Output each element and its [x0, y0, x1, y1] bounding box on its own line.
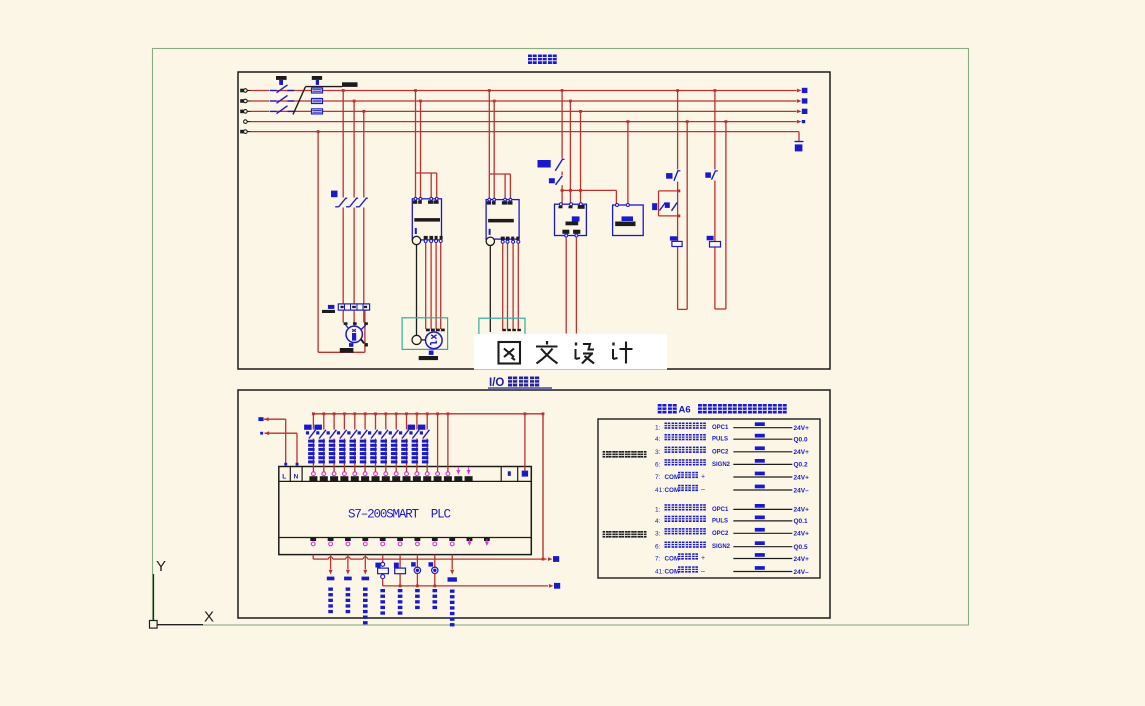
svg-text:PULS: PULS [712, 437, 728, 443]
svg-text:41:: 41: [655, 569, 664, 576]
svg-text:COM: COM [665, 487, 680, 494]
svg-text:N: N [294, 474, 299, 481]
svg-text:OPC2: OPC2 [712, 449, 729, 455]
svg-text:–: – [701, 487, 705, 494]
svg-text:7:: 7: [655, 474, 661, 481]
svg-text:24V+: 24V+ [794, 449, 810, 456]
svg-text:41:: 41: [655, 487, 664, 494]
svg-text:A6: A6 [679, 405, 691, 416]
svg-text:+: + [701, 474, 705, 481]
svg-text:3:: 3: [655, 530, 661, 537]
svg-text:Q0.0: Q0.0 [794, 437, 808, 444]
svg-text:6:: 6: [655, 461, 661, 468]
svg-text:24V–: 24V– [794, 487, 810, 494]
svg-text:1:: 1: [655, 506, 661, 513]
svg-text:+: + [701, 555, 705, 562]
svg-text:24V+: 24V+ [794, 474, 810, 481]
svg-text:SIGN2: SIGN2 [712, 544, 731, 550]
svg-text:I/O: I/O [489, 377, 504, 389]
svg-text:Q0.2: Q0.2 [794, 462, 808, 469]
svg-text:Q0.5: Q0.5 [794, 544, 808, 551]
svg-text:COM: COM [665, 569, 680, 576]
svg-text:COM: COM [665, 474, 680, 481]
svg-text:S7–200SMART PLC: S7–200SMART PLC [348, 508, 451, 522]
svg-text:6:: 6: [655, 544, 661, 551]
svg-text:3:: 3: [655, 449, 661, 456]
svg-text:COM: COM [665, 556, 680, 563]
svg-text:OPC2: OPC2 [712, 531, 729, 537]
svg-text:1:: 1: [655, 425, 661, 432]
svg-text:SIGN2: SIGN2 [712, 462, 731, 468]
svg-text:L: L [282, 474, 286, 481]
svg-text:24V+: 24V+ [794, 556, 810, 563]
svg-text:X: X [204, 609, 214, 626]
svg-text:4:: 4: [655, 518, 661, 525]
svg-text:OPC1: OPC1 [712, 425, 729, 431]
svg-text:–: – [701, 568, 705, 575]
svg-text:24V–: 24V– [794, 569, 810, 576]
svg-text:24V+: 24V+ [794, 507, 810, 514]
svg-text:4:: 4: [655, 436, 661, 443]
svg-text:Y: Y [156, 558, 166, 575]
svg-text:24V+: 24V+ [794, 425, 810, 432]
svg-text:24V+: 24V+ [794, 531, 810, 538]
svg-text:7:: 7: [655, 556, 661, 563]
svg-text:OPC1: OPC1 [712, 507, 729, 513]
svg-text:PULS: PULS [712, 518, 728, 524]
svg-text:Q0.1: Q0.1 [794, 518, 808, 525]
